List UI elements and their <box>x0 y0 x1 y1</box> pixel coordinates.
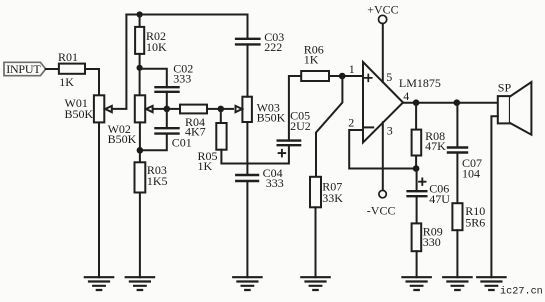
wire R05 bottom to C05 <box>221 145 289 163</box>
wire node to C06 <box>416 169 418 192</box>
resistor R04 <box>180 105 207 139</box>
ground R07 <box>301 277 329 290</box>
svg-text:333: 333 <box>266 176 284 190</box>
resistor R06 <box>301 42 329 81</box>
svg-text:333: 333 <box>173 72 191 86</box>
wire R07 to ground <box>315 207 317 277</box>
wire C02 to node <box>166 92 168 109</box>
node output/C07 <box>454 99 461 106</box>
node R02/W02/C02 <box>137 65 143 71</box>
svg-text:4K7: 4K7 <box>185 125 206 139</box>
svg-text:ic27.cn: ic27.cn <box>500 285 543 297</box>
svg-text:1K5: 1K5 <box>147 174 168 188</box>
capacitor C01 <box>156 128 192 149</box>
svg-text:2: 2 <box>348 116 354 130</box>
resistor R05 <box>198 123 227 173</box>
-VCC terminal <box>367 190 396 217</box>
capacitor C07 <box>448 148 482 181</box>
wire node to W03 arrow <box>221 108 233 110</box>
resistor R09 <box>412 223 443 251</box>
wire R09 to ground <box>416 251 418 277</box>
op-amp LM1875 <box>348 62 441 143</box>
node W02/R03/C01 <box>137 147 144 154</box>
svg-text:1K: 1K <box>304 52 319 66</box>
svg-text:B50K: B50K <box>108 132 137 146</box>
wire C04 to ground <box>246 181 248 277</box>
wire W02 wiper to node <box>154 108 167 110</box>
ground C04 <box>233 277 261 290</box>
capacitor C02 <box>156 62 194 92</box>
svg-text:B50K: B50K <box>65 107 94 121</box>
svg-text:B50K: B50K <box>257 110 286 124</box>
potentiometer W01 <box>65 95 112 122</box>
wire R08 to feedback node <box>415 156 417 169</box>
resistor R03 <box>135 162 168 192</box>
wire speaker bottom to ground <box>491 116 497 277</box>
svg-text:SP: SP <box>498 81 512 95</box>
wire R04 to node <box>207 108 221 110</box>
svg-text:1K: 1K <box>59 75 74 89</box>
wire C03 to W03 top <box>247 44 249 96</box>
resistor R10 <box>452 203 485 230</box>
svg-text:5: 5 <box>386 70 392 84</box>
capacitor C06 polarized <box>408 179 451 207</box>
wire node to C02 <box>140 69 167 87</box>
svg-text:-VCC: -VCC <box>367 204 396 218</box>
wire W01 wiper up to top rail <box>113 15 126 109</box>
node top rail / R02 <box>137 11 143 17</box>
resistor R01 <box>58 50 85 89</box>
wire pin3 to -VCC <box>382 122 384 190</box>
wire input to R01 <box>46 68 59 70</box>
svg-text:330: 330 <box>423 235 441 249</box>
ground R03 <box>126 277 154 290</box>
ground speaker <box>477 277 505 290</box>
ground R09 <box>402 277 430 290</box>
wire C05 top to R06 <box>289 76 301 141</box>
wire node to R04 <box>167 108 180 110</box>
potentiometer W02 <box>108 95 153 146</box>
node C02/C01/R04 <box>164 106 171 113</box>
svg-text:47K: 47K <box>425 139 446 153</box>
wire R06 to op-amp pin1 <box>329 75 363 77</box>
capacitor C05 polarized <box>278 108 311 156</box>
svg-text:104: 104 <box>462 166 480 180</box>
svg-text:1K: 1K <box>198 159 213 173</box>
capacitor C04 <box>236 166 283 190</box>
resistor R07 <box>310 177 343 208</box>
wire output <box>403 102 498 104</box>
wire R05 top <box>220 109 222 123</box>
svg-text:2U2: 2U2 <box>290 119 311 133</box>
wire node pin1 down diagonal to R07 <box>316 76 342 177</box>
wire W03 bottom to C04 <box>246 122 248 175</box>
speaker SP <box>498 81 532 135</box>
svg-text:INPUT: INPUT <box>6 62 41 76</box>
wire R03 to ground <box>139 193 141 278</box>
+VCC terminal <box>367 2 398 23</box>
svg-text:3: 3 <box>387 124 393 138</box>
node R04/W03/R05 <box>218 106 225 113</box>
svg-text:10K: 10K <box>146 40 167 54</box>
node pin1 <box>339 73 346 80</box>
svg-text:1: 1 <box>349 62 355 76</box>
wire R10 to ground <box>456 230 458 277</box>
INPUT terminal <box>4 62 46 76</box>
wire R01 to W01 top <box>85 69 99 95</box>
svg-text:LM1875: LM1875 <box>399 76 441 90</box>
wire node to W02 top <box>139 68 141 96</box>
svg-text:+VCC: +VCC <box>367 2 398 16</box>
wire C06 to R09 <box>416 196 418 223</box>
wire +VCC to pin5 <box>382 24 384 83</box>
resistor R08 <box>412 129 447 156</box>
wire pin2 to feedback node <box>349 130 416 169</box>
wire node to R02 <box>139 15 141 27</box>
svg-text:R01: R01 <box>58 50 78 64</box>
wire W02 bottom <box>139 122 141 162</box>
wire node to R08 <box>415 103 417 130</box>
ground R10 <box>443 277 471 290</box>
svg-text:5R6: 5R6 <box>465 215 485 229</box>
wire node down to C01 <box>166 109 168 128</box>
wire R02 to node <box>139 54 141 68</box>
capacitor C03 <box>236 30 284 54</box>
node feedback R08/C06 <box>413 165 420 172</box>
resistor R02 <box>135 27 167 54</box>
wire top rail <box>126 15 247 39</box>
svg-text:33K: 33K <box>322 191 343 205</box>
wire C07 to R10 <box>456 153 458 204</box>
potentiometer W03 <box>236 97 286 125</box>
svg-text:4: 4 <box>403 89 409 103</box>
svg-text:222: 222 <box>264 40 282 54</box>
ground W01 <box>85 123 113 290</box>
node output/R08 <box>413 99 420 106</box>
wire C01 down to W02 bottom line <box>140 134 167 151</box>
svg-text:47U: 47U <box>429 192 450 206</box>
wire node to C07 <box>456 103 458 148</box>
